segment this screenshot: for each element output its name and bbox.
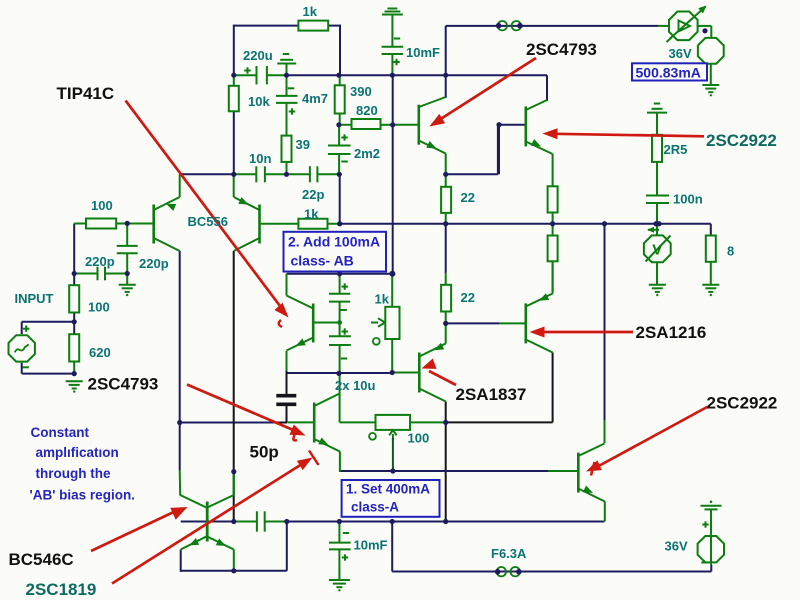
- wire y422.4 trim to dot: [410, 421, 446, 423]
- resistor 22 lower: [441, 285, 451, 312]
- node 820 dots: [336, 122, 501, 127]
- svg-text:10n: 10n: [249, 151, 271, 166]
- svg-text:BC556: BC556: [188, 214, 228, 229]
- capacitor 50p black: [276, 396, 296, 405]
- wire x233.8 vertical 1k-left down: [233, 25, 235, 77]
- svg-text:22p: 22p: [302, 187, 324, 202]
- wire x339.9 qm2 emitter drop: [339, 452, 341, 473]
- note constant amplification: [30, 425, 135, 503]
- svg-text:1k: 1k: [304, 207, 319, 222]
- wire qm2 base green: [288, 421, 315, 423]
- label 100 trimmer: [408, 431, 430, 446]
- label 100n: [673, 192, 703, 207]
- red arrow 2SA1216: [530, 327, 634, 338]
- wire 39 bottom stem: [286, 162, 288, 174]
- wire x552.6 res to rail: [552, 213, 554, 224]
- node y273.8 dots: [337, 271, 395, 277]
- label 4m7: [302, 91, 328, 106]
- wire x552.6 res-up to emitter: [552, 154, 554, 186]
- wire V+ rail y75 left green: [234, 74, 257, 76]
- svg-text:1k: 1k: [303, 4, 318, 19]
- source 36V top: [698, 28, 724, 64]
- resistor 10k: [229, 86, 239, 112]
- wire x180 green to bc546: [179, 471, 182, 496]
- trimmer 100: [369, 415, 410, 471]
- ammeter: [667, 6, 707, 43]
- resistor 8: [706, 236, 716, 262]
- resistor 1k top: [298, 21, 328, 31]
- svg-text:36V: 36V: [669, 46, 692, 61]
- wire x446 below rail: [445, 224, 447, 285]
- label 390: [350, 84, 372, 99]
- wire node y273.8: [287, 273, 393, 275]
- label F6.3A: [491, 546, 527, 561]
- svg-text:2SA1837: 2SA1837: [456, 385, 527, 404]
- wire x711.3 up to 36V src: [710, 565, 712, 572]
- label 2SC4793 top: [526, 40, 597, 59]
- transistor 2SC1819: [207, 472, 234, 550]
- svg-text:22: 22: [461, 190, 475, 205]
- label 2SA1837: [456, 385, 527, 404]
- wire output rail y223.75: [340, 223, 711, 225]
- wire y422.4 left of trim: [340, 421, 376, 423]
- capacitor 10mF bottom: [329, 522, 351, 581]
- capacitor 2x10u upper: [329, 274, 350, 323]
- label 2SA1216: [636, 323, 707, 342]
- svg-text:amplıficatıon: amplıficatıon: [36, 445, 119, 460]
- node output rail dots: [337, 221, 662, 226]
- transistor BC556 right half: [234, 174, 260, 251]
- label BC546C: [9, 550, 74, 569]
- svg-text:620: 620: [89, 345, 111, 360]
- wire rail y521.5 navy main: [287, 521, 605, 523]
- red arrow 2SC1819: [112, 451, 319, 584]
- fuse top: [496, 21, 523, 30]
- annotation box 2.Add 100mA: [284, 232, 387, 272]
- svg-text:8: 8: [727, 244, 734, 259]
- node y174 dots: [231, 172, 448, 177]
- svg-text:10mF: 10mF: [406, 45, 440, 60]
- svg-text:through the: through the: [36, 466, 111, 481]
- ground 36V top: [702, 85, 719, 97]
- label 220p right: [139, 256, 169, 271]
- wire x339.7 y174-y224: [339, 174, 341, 223]
- svg-text:2SC4793: 2SC4793: [88, 375, 159, 394]
- wire rail y373 navy: [287, 372, 392, 374]
- red arrow 2SC2922 top: [543, 128, 705, 139]
- transistor 2SC4793 top-right (Q2): [526, 100, 553, 154]
- wire bottom emitter rail y570.8: [181, 570, 287, 572]
- label 39: [296, 137, 310, 152]
- red arrow 2SA1837: [422, 359, 457, 386]
- wire x74.2 column: [73, 224, 75, 374]
- svg-text:2SC2922: 2SC2922: [706, 131, 777, 150]
- wire vmeter stems: [656, 224, 658, 285]
- wire y422.4 navy left: [180, 422, 287, 424]
- wire x180.7 bc546 emitter drop: [180, 550, 182, 572]
- resistor 22 upper: [441, 187, 451, 213]
- label TIP41C: [57, 84, 115, 103]
- red arrow 2SC4793 top: [430, 58, 537, 127]
- resistor 39: [282, 136, 292, 162]
- annotation box 1.Set 400mA: [342, 480, 440, 517]
- wire V+ rail y75 navy: [287, 74, 548, 76]
- label 22 upper: [461, 190, 475, 205]
- wire x393 column: [392, 75, 394, 274]
- source 36V bottom: [698, 533, 724, 565]
- wire x233.8 1819 emitter drop: [233, 550, 235, 571]
- ground 10mF bottom: [329, 580, 350, 592]
- svg-text:500.83mA: 500.83mA: [636, 64, 701, 80]
- svg-text:100n: 100n: [673, 192, 703, 207]
- svg-text:4m7: 4m7: [302, 91, 328, 106]
- capacitor 220p horiz: [98, 267, 106, 281]
- wire 2922b emitter drop: [604, 502, 606, 522]
- wire x233.8 bc556R collector drop: [233, 251, 235, 522]
- wire 220p node y273.5: [74, 273, 127, 275]
- svg-text:2SC4793: 2SC4793: [526, 40, 597, 59]
- transistor 2SC4793 mid (Qm2): [314, 394, 340, 452]
- red arrow BC546C: [91, 507, 188, 551]
- svg-text:2m2: 2m2: [354, 146, 380, 161]
- svg-text:390: 390: [350, 84, 372, 99]
- wire corner x340 down to V+ node: [339, 25, 341, 77]
- wire y521.5 cap greens: [234, 521, 287, 523]
- wire top 1k rail left segment: [234, 25, 299, 27]
- resistor 100 input-v: [69, 285, 79, 312]
- wire x287 drop to bottom rail: [286, 522, 288, 571]
- wire r8 stems: [710, 262, 712, 285]
- svg-text:TIP41C: TIP41C: [57, 84, 115, 103]
- svg-text:39: 39: [296, 137, 310, 152]
- capacitor 220p vert: [117, 246, 138, 253]
- resistor 390: [335, 85, 345, 113]
- wire emitters y174.3 navy left: [180, 173, 234, 175]
- capacitor 220u: [244, 66, 267, 84]
- wire base bc556L y223.5: [74, 223, 154, 225]
- capacitor 4m7: [276, 75, 298, 135]
- label 36V top: [669, 46, 692, 61]
- label 22p: [302, 187, 324, 202]
- resistor 100 input-h: [86, 219, 116, 229]
- trimmer 1k: [371, 307, 400, 345]
- wire x499 vertical: [498, 125, 500, 175]
- ground input 220p: [119, 285, 136, 296]
- wire x446 from y26 down: [445, 26, 447, 98]
- wire x552.6 rail to res2: [552, 224, 554, 236]
- red arrow 2SC2922 bottom: [586, 407, 708, 476]
- label 220u: [243, 48, 273, 63]
- resistor 620: [69, 334, 79, 361]
- wire y422.4 black: [446, 421, 553, 423]
- wire x446 res22b to base node: [445, 312, 447, 324]
- svg-text:BC546C: BC546C: [9, 550, 74, 569]
- wire 50p bottom lead: [286, 406, 288, 422]
- svg-text:10k: 10k: [248, 94, 270, 109]
- capacitor 100n: [646, 196, 669, 204]
- svg-text:'AB' bias region.: 'AB' bias region.: [30, 488, 135, 503]
- wire 390 stems: [339, 75, 341, 125]
- svg-text:2SC1819: 2SC1819: [26, 580, 97, 599]
- node bias mid dots: [336, 320, 448, 376]
- wire base 1837 y372.5: [392, 372, 419, 374]
- transistor 2SC4793 top-left (Q1): [419, 97, 446, 174]
- label 1k trimmer: [375, 292, 390, 307]
- label 50p: [250, 443, 279, 462]
- svg-text:2. Add 100mA: 2. Add 100mA: [288, 234, 380, 250]
- wire amm right corner: [698, 26, 712, 38]
- node bottom rail dot: [231, 568, 236, 573]
- svg-text:10mF: 10mF: [354, 538, 388, 553]
- wire base1 y124.7 green: [393, 124, 419, 126]
- wire 1k right to corner: [328, 25, 340, 27]
- ground-up 10mF top: [382, 9, 403, 15]
- wire 1k mid right lead: [328, 223, 340, 225]
- label 2m2: [354, 146, 380, 161]
- wire input y321.8: [22, 322, 74, 334]
- label 10k: [248, 94, 270, 109]
- wire x233.8 below 10k to y174: [233, 111, 235, 174]
- label 1k mid: [304, 207, 319, 222]
- red arrow 2SC4793 mid: [187, 385, 306, 441]
- wire vas emitter col x286.5: [286, 351, 288, 394]
- wire base bc556R to 1k: [261, 223, 299, 225]
- svg-text:22: 22: [461, 290, 475, 305]
- svg-text:Constant: Constant: [31, 425, 90, 440]
- node bc junction dots: [231, 469, 289, 524]
- wire x710.8 down to R8: [710, 224, 712, 236]
- node y422 dots: [177, 420, 448, 425]
- capacitor 10n: [256, 166, 265, 182]
- transistor BC546C: [180, 495, 207, 550]
- wire base row y521.5 navy: [181, 521, 234, 523]
- label 820: [356, 103, 378, 118]
- wire x604.5 output drop: [604, 224, 606, 443]
- label 220p left: [85, 254, 115, 269]
- label 2SC4793 mid: [88, 375, 159, 394]
- wire fuse rail y571.5: [392, 571, 711, 573]
- node input dots: [72, 221, 130, 376]
- label 620: [89, 345, 111, 360]
- label INPUT: [15, 291, 54, 306]
- svg-text:100: 100: [88, 300, 110, 315]
- wire x180 bc556L collector long drop: [179, 251, 181, 471]
- capacitor 10mF top: [382, 15, 404, 76]
- ground input 620: [66, 381, 83, 393]
- wire x446 dot to rail521: [445, 422, 447, 521]
- transistor TIP41C VAS: [287, 296, 340, 351]
- svg-text:2x 10u: 2x 10u: [335, 378, 376, 393]
- svg-text:1. Set 400mA: 1. Set 400mA: [346, 482, 430, 497]
- label 10mF bottom: [354, 538, 388, 553]
- capacitor 2m2: [328, 125, 351, 174]
- label 10mF top: [406, 45, 440, 60]
- wire x552.6 1216 collector drop: [552, 353, 554, 423]
- node V+ rail dots: [231, 73, 448, 78]
- resistor right-upper: [548, 186, 558, 212]
- svg-text:220p: 220p: [139, 256, 169, 271]
- wire x233.8 1819col: [233, 472, 235, 494]
- wire x233.8 dot to 10k: [233, 75, 235, 86]
- svg-text:1k: 1k: [375, 292, 390, 307]
- transistor 2SA1837: [419, 323, 445, 401]
- voltmeter: [644, 227, 671, 262]
- label 1k top: [303, 4, 318, 19]
- svg-text:2SA1216: 2SA1216: [636, 323, 707, 342]
- fuse F6.3A: [495, 567, 522, 576]
- label BC556: [188, 214, 228, 229]
- svg-text:50p: 50p: [250, 443, 279, 462]
- wire x547 corner down: [546, 75, 548, 101]
- label 2R5: [664, 142, 688, 157]
- resistor right-lower: [548, 236, 558, 262]
- label 100 h: [91, 198, 113, 213]
- wire y323.4 base 2SA1216: [446, 322, 526, 324]
- label 22 lower: [461, 290, 475, 305]
- wire 36Vtop gnd stem: [710, 64, 712, 85]
- wire x446 1837col to dot: [445, 402, 447, 423]
- ground resistor 8: [702, 285, 719, 296]
- svg-text:class- AB: class- AB: [291, 253, 354, 269]
- wire x392.2 trim1k bottom: [391, 339, 393, 373]
- wire vas collector up: [286, 274, 288, 296]
- svg-text:220p: 220p: [85, 254, 115, 269]
- transistor 2SC2922 bottom: [578, 444, 605, 502]
- wire input bottom: [22, 363, 74, 374]
- capacitor 22p: [310, 166, 318, 182]
- wire x339.6 battery to qm2: [339, 373, 341, 422]
- capacitor 2x10u lower: [329, 323, 351, 374]
- wire 220pv stems: [126, 224, 128, 285]
- label 2SC2922 bottom: [707, 394, 778, 413]
- capacitor 36Vbot top-end: [701, 501, 722, 534]
- label 2x 10u: [335, 378, 376, 393]
- label 36V bottom: [665, 539, 688, 554]
- node rail521 dots: [337, 519, 449, 524]
- svg-text:class-A: class-A: [351, 500, 399, 515]
- svg-text:F6.3A: F6.3A: [491, 546, 527, 561]
- capacitor 2R5 top-end: [647, 104, 667, 121]
- red arrow TIP41C: [126, 101, 289, 328]
- ground voltmeter: [649, 285, 666, 296]
- svg-text:220u: 220u: [243, 48, 273, 63]
- wire y471 base 2922b: [340, 470, 578, 472]
- source INPUT sine: [9, 326, 35, 368]
- label 10n: [249, 151, 271, 166]
- label 2SC1819: [26, 580, 97, 599]
- node wiper dot: [390, 468, 395, 473]
- label 2SC2922 top: [706, 131, 777, 150]
- wire V+ rail y75 mid green: [267, 74, 287, 76]
- annotation box 500.83mA: [632, 63, 707, 80]
- wire base2 y124.7: [499, 124, 526, 126]
- wire 2R5 col: [656, 113, 658, 224]
- transistor 2SA1216: [526, 261, 553, 352]
- svg-text:100: 100: [91, 198, 113, 213]
- capacitor 4m7 top-end: [277, 54, 296, 75]
- wire x392.2 rail to Frail: [391, 522, 393, 572]
- wire supply rail y26 top: [446, 25, 658, 27]
- wire y174.3 right navy: [446, 126, 498, 175]
- resistor 1k mid: [298, 219, 327, 229]
- svg-text:100: 100: [408, 431, 430, 446]
- svg-text:INPUT: INPUT: [15, 291, 54, 306]
- svg-text:820: 820: [356, 103, 378, 118]
- wire x552.6 res2 to 1216: [552, 261, 554, 292]
- transistor BC556 left half: [154, 174, 180, 251]
- label 100 v: [88, 300, 110, 315]
- wire 820 side leads: [339, 124, 393, 126]
- capacitor mirror-bias: [257, 511, 265, 531]
- svg-text:36V: 36V: [665, 539, 688, 554]
- label 8: [727, 244, 734, 259]
- wire 22 upper stems: [445, 174, 447, 223]
- svg-text:2SC2922: 2SC2922: [707, 394, 778, 413]
- wire y174.3 green segs: [234, 173, 340, 175]
- resistor 2R5: [652, 135, 662, 162]
- wire amm left: [658, 25, 670, 27]
- svg-text:2R5: 2R5: [664, 142, 688, 157]
- wire x392.2 box-dot to trim: [391, 274, 393, 307]
- resistor 820: [352, 119, 381, 129]
